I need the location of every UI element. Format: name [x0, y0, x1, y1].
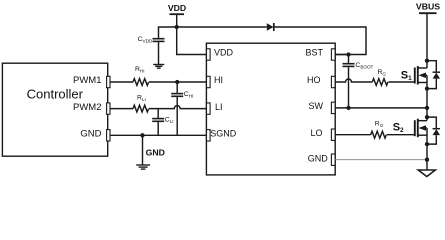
svg-text:Controller: Controller [27, 86, 84, 101]
wire VDD node to VDD pin [177, 27, 207, 55]
wire to earth ground [426, 160, 428, 170]
junction CBOOT / SW [346, 106, 350, 110]
gate driver IC U2 box [206, 43, 335, 175]
wire HI node to CHI [176, 82, 178, 93]
wire SW to S2 drain node [426, 108, 428, 121]
svg-text:LI: LI [215, 102, 223, 112]
pin SW (IC) [309, 101, 336, 114]
wire BST pin stub [335, 54, 348, 56]
wire HO pin to RG1 (hop over CBOOT line) [335, 79, 372, 82]
junction HI / CHI [175, 80, 179, 84]
wire RG2 to S2 gate [387, 134, 415, 136]
svg-text:VBUS: VBUS [416, 2, 440, 12]
junction SW / FET leg [425, 106, 429, 110]
capacitor CLI [152, 117, 173, 125]
wire CHI to SGND wire [176, 97, 178, 135]
junction S2 drain node [425, 115, 429, 119]
svg-text:S2: S2 [393, 122, 404, 135]
svg-text:CVDD: CVDD [138, 36, 153, 44]
pin BST (IC) [305, 48, 335, 60]
svg-text:CBOOT: CBOOT [355, 62, 373, 70]
controller U1 box [2, 63, 107, 156]
wire LO pin to RG2 [335, 134, 371, 136]
transistor S2 [415, 119, 427, 144]
wire S1 source to SW [426, 89, 428, 108]
wire RG1 to S1 gate [388, 81, 415, 83]
capacitor CHI [171, 91, 193, 99]
junction BST / CBOOT node [346, 52, 350, 56]
svg-text:CHI: CHI [184, 91, 194, 99]
svg-text:BST: BST [305, 48, 323, 58]
capacitor CBOOT [343, 62, 374, 70]
wire VDD node to diode D1 [177, 26, 267, 28]
wire CBOOT to SW node [348, 67, 350, 108]
pin PWM1 (controller) [73, 75, 110, 88]
wire diode D1 to BST [274, 27, 366, 55]
wire S2 source to GND wire [426, 144, 428, 160]
ground (controller GND) [136, 165, 150, 169]
svg-text:LO: LO [310, 128, 322, 138]
junction VDD node [175, 25, 179, 29]
wire controller GND to SGND pin [110, 134, 207, 136]
transistor S1 [415, 61, 427, 89]
wire PWM1 to resistor RHI [110, 81, 133, 83]
svg-text:VDD: VDD [168, 3, 186, 13]
pin LO (IC) [310, 128, 335, 141]
svg-text:CLI: CLI [165, 117, 174, 125]
VDD power symbol [168, 3, 186, 27]
wire CLI to SGND wire [157, 122, 159, 135]
VBUS power symbol [416, 2, 440, 61]
wire SW pin to FET leg [335, 107, 427, 109]
junction S2 source node [425, 142, 429, 146]
pin HI (IC) [207, 75, 224, 88]
svg-text:RG: RG [378, 69, 387, 77]
svg-text:HO: HO [307, 75, 321, 85]
junction GND / ground [425, 158, 429, 162]
svg-text:GND: GND [80, 129, 101, 140]
ground (below CVDD) [153, 65, 164, 69]
wire PWM2 to resistor RLI [110, 108, 133, 110]
wire LI node to CLI [157, 109, 159, 118]
resistor RLI [133, 95, 149, 112]
svg-text:S1: S1 [401, 69, 412, 82]
svg-text:SGND: SGND [210, 129, 237, 139]
body diode S1 [427, 61, 440, 89]
resistor RHI [133, 66, 149, 85]
pin LI (IC) [207, 102, 223, 115]
capacitor CVDD [138, 36, 165, 44]
diode D1 [267, 23, 274, 31]
body diode S2 [427, 117, 440, 144]
wire GND branch down [142, 135, 144, 165]
junction GND branch [140, 133, 144, 137]
pin GND (controller) [80, 129, 110, 142]
earth ground (open triangle) [418, 170, 435, 177]
wire BST node to CBOOT [348, 55, 350, 64]
svg-text:RHI: RHI [135, 66, 145, 74]
resistor RG1 [372, 69, 388, 86]
svg-text:PWM1: PWM1 [73, 75, 102, 86]
pin GND (IC) [308, 154, 335, 166]
svg-text:RLI: RLI [137, 95, 146, 103]
wire GND pin to ground [335, 159, 427, 161]
svg-text:PWM2: PWM2 [73, 102, 102, 113]
wire VDD node to CVDD [159, 27, 177, 38]
wire CVDD to ground [158, 42, 160, 64]
pin SGND (IC) [207, 129, 237, 142]
svg-text:GND: GND [308, 154, 329, 164]
junction S1 drain node [425, 59, 429, 63]
svg-text:VDD: VDD [214, 48, 234, 58]
resistor RG2 [371, 120, 387, 138]
pin VDD (IC) [207, 48, 234, 60]
svg-text:RG: RG [375, 120, 384, 128]
junction S1 source node [425, 86, 429, 90]
svg-text:HI: HI [214, 75, 223, 85]
svg-text:SW: SW [309, 101, 324, 111]
pin HO (IC) [307, 75, 335, 88]
wire RLI to LI pin (hop over CHI line) [149, 106, 207, 109]
svg-text:GND: GND [146, 147, 165, 157]
wire RHI to HI pin [149, 81, 207, 83]
pin PWM2 (controller) [73, 102, 110, 115]
